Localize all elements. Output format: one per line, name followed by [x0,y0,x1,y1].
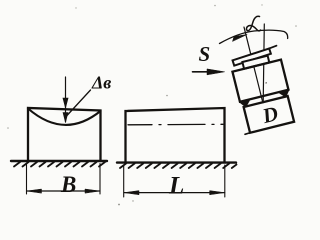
label delta-b [91,73,111,93]
svg-text:L: L [168,173,184,200]
speck inside body [265,82,267,84]
right mounting wedge [279,89,291,98]
label S [199,42,211,66]
feed arrowhead [207,69,225,75]
arrowhead L right [210,191,225,195]
ground hatching left [14,162,105,167]
left workpiece block outline [28,108,101,161]
top flange bar [233,48,271,65]
label D [259,101,280,128]
dimension line L [124,192,225,194]
label alpha [246,16,260,31]
svg-text:D: D [259,101,280,128]
ground line under middle block [117,161,236,163]
ground hatching middle [120,164,237,169]
middle workpiece block outline [126,108,225,162]
wheel bottom edge overshoot [245,133,250,135]
extension lines of dimension L [124,165,225,197]
left mounting wedge [239,99,251,108]
dash-dot wear line in middle block [128,123,223,126]
arrowhead L left [124,191,139,195]
svg-text:B: B [60,172,76,197]
leader line to delta-b label [67,90,91,116]
svg-text:Δв: Δв [91,73,111,93]
spacer bar [242,56,269,69]
wheel head body [232,60,288,102]
dimension line B [27,190,101,192]
angle arc arrowhead [233,35,248,42]
feed arrow S [193,71,210,73]
flange top edge overshoot [269,46,277,49]
delta-b arrowhead lower [63,113,68,123]
arrowhead B right [85,189,100,193]
wheel axis line [244,27,263,103]
extension lines of dimension B [27,164,101,195]
label L [168,173,184,200]
arrowhead B left [27,189,42,193]
delta-b measuring line [65,77,67,122]
angle dimension arc [220,30,288,43]
concave worn top surface of left block [28,109,101,125]
grinding head assembly (rotated) [220,20,297,134]
grinding wheel D [244,96,294,133]
svg-text:S: S [199,42,211,66]
delta-b arrowhead upper [63,98,68,108]
vertical reference line of angle [263,24,264,103]
ground line under left block [11,160,107,162]
label B [60,172,76,197]
